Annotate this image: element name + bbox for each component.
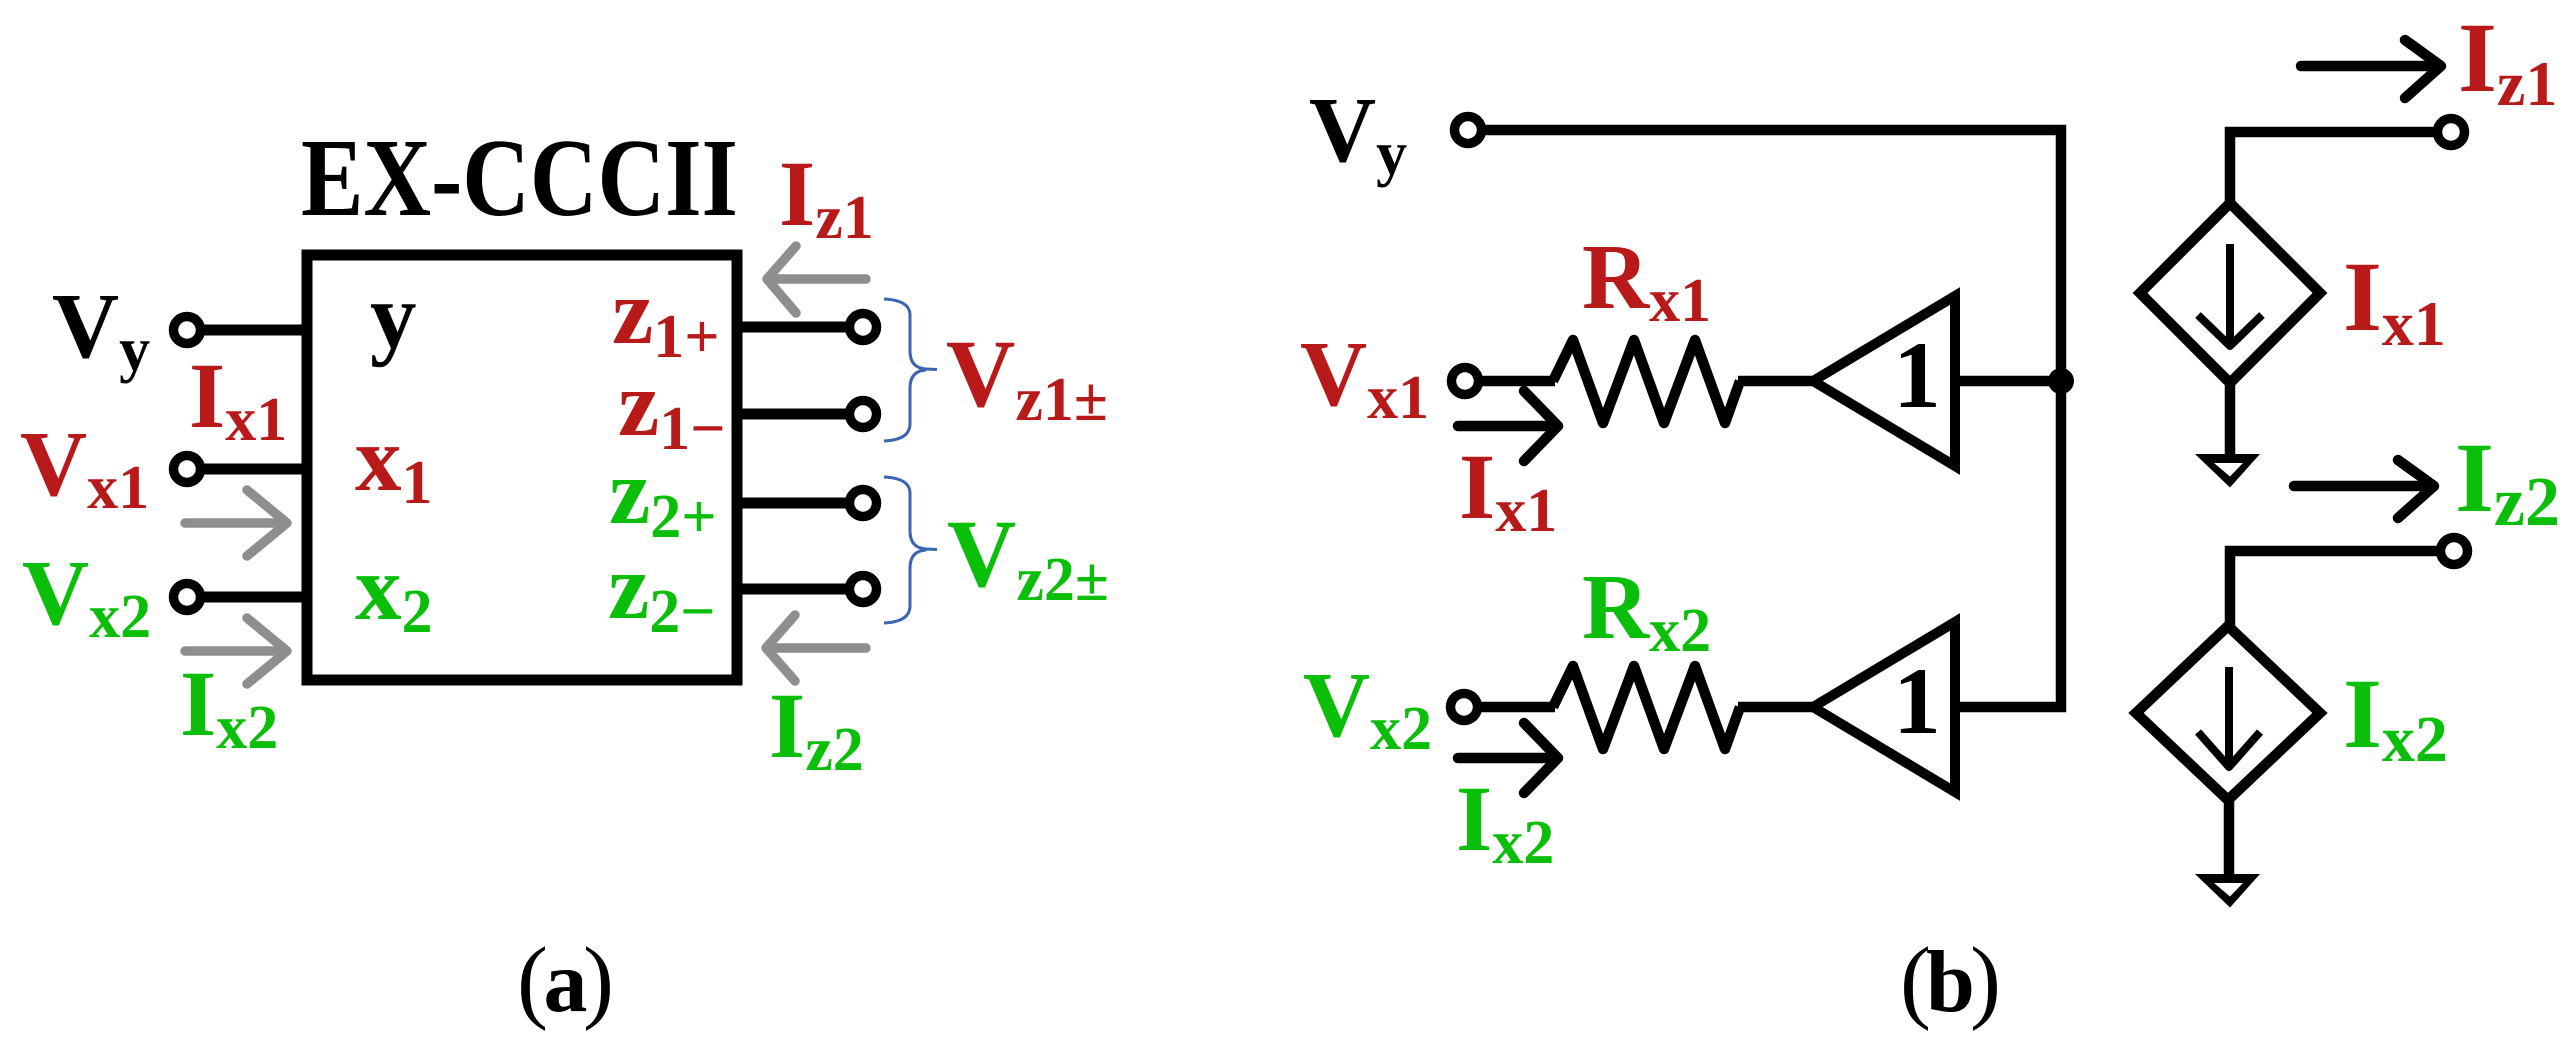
wire Vx2 to Rx2 [1478,702,1555,713]
wire pin z1- [737,409,849,420]
current arrow Ix2 (b) [1458,723,1558,793]
terminal z1+ [850,314,877,341]
buffer U1 [1813,296,1955,466]
current arrow Ix2 into x2 [185,618,287,684]
terminal z1- [850,401,877,428]
resistor Rx2 [1553,666,1740,749]
wire pin z2- [737,584,849,595]
wire pin z2+ [737,498,849,509]
current arrow Ix1 (b) [1458,391,1558,461]
junction node w [2048,368,2074,394]
wire Vx1 to Rx1 [1479,376,1555,387]
terminal Vy (b) [1455,117,1482,144]
terminal Vx2 [174,584,201,611]
svg-text:1: 1 [1893,648,1941,754]
terminal Vy [174,317,201,344]
current source Ix1 diamond [2140,203,2320,383]
current arrow Iz1 into z1 [767,246,866,313]
wire pin z1+ [737,322,849,333]
terminal z2- [850,576,877,603]
svg-text:y: y [370,265,417,368]
terminal z2+ [850,490,877,517]
wire Rx2 to buffer2 [1738,702,1821,713]
wire source Ix2 to Iz2 terminal [2230,551,2440,630]
current arrow Iz1 (b) [2301,40,2441,98]
wire pin x1 [201,464,307,475]
wire source Ix2 bottom [2224,797,2235,877]
block U1 EX-CCCII body [307,255,737,680]
current source Ix2 diamond [2136,626,2320,800]
wire source Ix1 to Iz1 terminal [2230,132,2437,209]
wire Rx1 to buffer1 [1738,376,1818,387]
svg-text:1: 1 [1893,322,1941,428]
svg-text:(a): (a) [517,929,614,1032]
resistor Rx1 [1553,340,1740,423]
terminal Vx1 [174,456,201,483]
terminal arrow source Ix1 [2195,454,2260,488]
current source Ix1 arrow [2198,244,2262,346]
ground [2195,874,2260,908]
wire Vy net [1482,130,2061,707]
wire pin y [201,325,307,336]
terminal Iz1 (b) [2438,119,2465,146]
current arrow Ix1 into x1 [185,490,287,556]
current source Ix2 arrow [2198,667,2260,767]
brace z2 group [884,477,937,623]
terminal Vx1 (b) [1452,368,1479,395]
current arrow Iz2 into z2 [766,615,866,681]
terminal Vx2 (b) [1451,694,1478,721]
svg-text:EX-CCCII: EX-CCCII [301,117,738,240]
svg-text:(b): (b) [1900,929,2001,1032]
wire pin x2 [201,592,307,603]
wire source Ix1 bottom [2225,380,2236,458]
brace z1 group [884,299,937,441]
buffer U2 [1813,622,1955,792]
current arrow Iz2 (b) [2294,460,2434,518]
terminal Iz2 (b) [2441,538,2468,565]
wire buffer1 output [1955,376,2061,387]
